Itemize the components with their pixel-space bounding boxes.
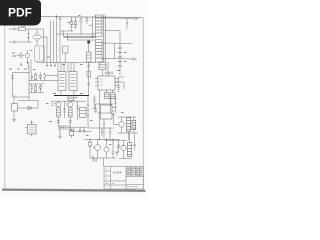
transistor Q2: [66, 101, 72, 126]
wire secondary out top: [102, 17, 134, 19]
wire AC neutral: [15, 41, 32, 43]
wire branch right: [63, 128, 75, 130]
capacitor C8: [87, 41, 92, 96]
wire right column: [114, 113, 119, 125]
diode D9: [117, 140, 120, 152]
capacitor C9: [117, 77, 124, 92]
wire to title block: [103, 158, 105, 166]
wire hs drop: [128, 132, 130, 141]
capacitor CX1: [17, 53, 25, 59]
capacitor C6: [31, 73, 34, 81]
wire ic out right: [115, 82, 124, 89]
secondary control bus: [84, 139, 120, 141]
pwm ic U1: [95, 62, 118, 90]
wire transformer feed pair: [93, 16, 96, 39]
value label specks: [9, 15, 127, 146]
pdf badge: [0, 0, 41, 26]
wire mid right link: [97, 112, 112, 114]
sense network S1: [92, 155, 98, 162]
optocoupler U2: [58, 63, 66, 91]
inductor L2: [63, 46, 69, 63]
capacitor C21: [132, 117, 136, 133]
wire primary stair h1: [60, 30, 73, 32]
wire rail vertical D: [53, 21, 55, 63]
wire bottom rail: [90, 157, 116, 159]
resistor R15 chain: [87, 96, 90, 129]
lower driver network: [58, 126, 92, 139]
wire legs join: [59, 125, 71, 127]
buzzer BZ1: [25, 121, 36, 137]
diode D2 snubber: [74, 17, 77, 30]
ground G1: [58, 133, 62, 139]
comparator U6: [101, 105, 115, 119]
wire knot v1: [103, 119, 104, 140]
capacitor C5 bulk: [35, 46, 45, 61]
wire aux drop: [126, 19, 128, 30]
wire link row1: [29, 80, 45, 82]
wire hot ground dark: [54, 95, 89, 97]
control bus left: [11, 63, 46, 101]
resistor ladder right of ic: [109, 95, 112, 113]
wire bridge right lead: [42, 36, 48, 38]
wire rail vertical B: [46, 37, 48, 63]
svg-text:PDF: PDF: [8, 6, 32, 20]
title block: [104, 166, 143, 189]
frame right border: [142, 18, 144, 191]
resistor R2: [34, 73, 37, 81]
capacitor C22: [101, 128, 103, 136]
svg-text:220: 220: [12, 55, 17, 58]
page background: [0, 0, 149, 198]
wire link row2 bottom: [29, 92, 44, 94]
wire primary stair h2: [57, 33, 97, 35]
frame top border: [5, 16, 144, 17]
resistor R13: [76, 101, 79, 120]
wire branch vertical: [62, 126, 64, 129]
wire right cluster bottom: [117, 132, 138, 134]
connector P2: [135, 17, 139, 19]
resistor R14: [89, 140, 92, 159]
resistor R1 left rail: [11, 73, 14, 98]
transistor Q10: [121, 140, 126, 158]
wire knot h2: [95, 103, 113, 105]
wire q9 loop bottom: [18, 107, 39, 109]
capacitor C20: [94, 104, 97, 113]
wire stair vertical b: [67, 34, 69, 40]
wire driver to knot h1: [59, 126, 88, 127]
wire top bus drop 2: [59, 16, 62, 62]
wire q9 loop right: [37, 101, 39, 109]
inductor L4: [68, 95, 74, 100]
resistor row R6 R7 R8: [105, 72, 114, 75]
frame bottom heavy border: [2, 190, 146, 191]
capacitor C4: [86, 17, 89, 24]
wire q5 top rail: [118, 116, 136, 118]
wire driver to knot h2: [70, 126, 92, 131]
wire rail vertical C: [50, 21, 52, 63]
wire lower feed: [105, 139, 127, 141]
capacitor pair C16 C17: [105, 90, 116, 99]
driver bus: [52, 100, 86, 102]
connector P3: [133, 58, 138, 60]
diode D5: [39, 73, 42, 81]
junction dots bus: [89, 139, 113, 140]
wire ic down left: [99, 90, 101, 104]
resistor R10: [63, 101, 66, 118]
wire link row2 top: [29, 83, 44, 85]
capacitor row CB1: [79, 127, 85, 133]
wire rail vertical A: [43, 29, 45, 63]
capacitor C15: [133, 133, 136, 150]
diode D8: [70, 129, 74, 138]
diode D1 snubber: [70, 16, 73, 31]
transistor Q8: [104, 140, 109, 159]
transistor Q5: [119, 117, 124, 133]
wire bottom link: [13, 96, 30, 98]
wire stub B: [28, 63, 29, 68]
wire out join: [114, 43, 116, 59]
diode D6: [39, 84, 42, 93]
wire bridge plus rail: [36, 29, 38, 33]
sense network S2: [116, 150, 119, 156]
wire driver left drop: [51, 101, 53, 107]
wire secondary tap: [105, 31, 120, 44]
wire knot h1: [88, 127, 114, 129]
resistor ticks RT area: [92, 96, 97, 109]
wire stair vertical a: [63, 31, 65, 37]
wire top bus drop 1: [55, 15, 58, 63]
wire primary stair h3 dark: [64, 36, 97, 38]
wire left link upper: [45, 75, 58, 77]
resistor R4: [34, 84, 37, 93]
wire bottom drop: [112, 140, 114, 153]
frame left border: [4, 16, 6, 190]
svg-text:xx xxx xx: xx xxx xx: [127, 188, 137, 190]
transistor Q7: [93, 140, 101, 159]
resistor ladder R17: [114, 95, 117, 113]
heatsink HS1: [127, 118, 131, 132]
wire stub A: [20, 63, 22, 67]
wire bridge minus lead: [36, 42, 38, 47]
label AC 220: [12, 52, 17, 58]
capacitor C19: [112, 152, 115, 158]
bridge rectifier BR1: [33, 33, 42, 42]
regulator Q9: [12, 95, 18, 122]
transistor Q1: [55, 101, 61, 126]
resistor R3: [43, 73, 45, 81]
svg-text:A-XXX: A-XXX: [113, 171, 122, 175]
wire primary stair h4: [68, 39, 97, 41]
wire left link lower: [45, 80, 58, 82]
thermistor RT1: [25, 50, 29, 63]
wire ic to bus: [99, 104, 101, 140]
optocoupler U3: [69, 63, 77, 91]
heatsink HS2: [128, 133, 132, 157]
capacitor stub row CS1: [46, 63, 56, 68]
wire lower right rail: [119, 158, 132, 160]
wire q9 loop top: [18, 100, 39, 102]
wire opto grounds: [58, 63, 74, 96]
wire secondary out low: [102, 58, 132, 61]
capacitor C3: [79, 17, 82, 35]
fuse F1: [15, 24, 43, 31]
transformer T2 driver: [80, 108, 87, 118]
capacitor ladder C10 C11 C12 C13 C14: [118, 43, 122, 75]
wire right rail: [28, 67, 29, 100]
wire secondary out mid: [102, 42, 132, 45]
diode D11: [28, 106, 31, 110]
connector J1 AC input: [9, 28, 16, 43]
capacitor C18: [59, 126, 62, 133]
transformer T1 core: [104, 15, 106, 63]
wire inter phase: [27, 29, 30, 42]
wire control bus: [13, 72, 30, 74]
capacitor C23: [109, 128, 111, 140]
title block text: [105, 167, 143, 190]
transformer T1 secondary winding: [96, 40, 103, 63]
transformer T1 primary winding: [96, 15, 103, 37]
inductor L3 aux: [99, 63, 106, 77]
capacitor C7: [31, 84, 34, 93]
wire mid drop left: [30, 59, 32, 73]
wire mid bus: [36, 62, 96, 64]
